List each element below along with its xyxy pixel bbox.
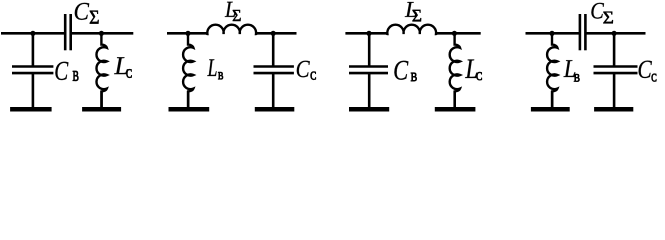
wire: L_C bottom lead (circuit 1) [100, 91, 103, 108]
node: circuit 4 right junction dot [612, 31, 617, 36]
ground bar under C_C (circuit 4) [594, 107, 633, 112]
label L_C (circuit 1) [114, 57, 132, 77]
inductor L_C (shunt, circuit 3) [450, 32, 460, 108]
node: circuit 2 left junction dot [185, 31, 190, 36]
wire: circuit 3 top rail, right segment [436, 32, 480, 35]
label L_B (circuit 4) [564, 60, 580, 81]
inductor L_Sigma (series, circuit 2) [206, 25, 257, 34]
capacitor C_B (shunt, circuit 3) with leads [368, 33, 371, 66]
label C_C (circuit 2) [297, 61, 316, 80]
inductor L_Sigma (series, circuit 3) [386, 25, 437, 34]
ground bar under L_B (circuit 2) [169, 107, 210, 112]
node: circuit 3 left junction dot [366, 31, 371, 36]
inductor L_C (shunt, circuit 1) [96, 32, 106, 108]
label L_B (circuit 2) [207, 59, 223, 79]
wire: circuit 2 top rail, right segment [256, 32, 296, 35]
inductor L_B (shunt, circuit 4) [547, 32, 557, 108]
node: circuit 2 right junction dot [271, 31, 276, 36]
ground bar under L_C (circuit 3) [435, 107, 476, 112]
wire: circuit 3 top rail, left segment [345, 32, 387, 35]
ground bar under C_C (circuit 2) [255, 107, 294, 112]
ground bar under C_B (circuit 1) [10, 107, 52, 112]
ground bar under C_B (circuit 3) [349, 107, 389, 112]
node: circuit 4 left junction dot [549, 31, 554, 36]
wire: L_C bottom lead (circuit 3) [453, 91, 456, 108]
label C_Sigma (circuit 4) [591, 3, 613, 24]
wire: L_B bottom lead (circuit 2) [187, 91, 190, 108]
node: circuit 1 left junction dot [30, 31, 35, 36]
capacitor C_C (shunt, circuit 2) with leads [272, 33, 275, 66]
label C_C (circuit 4) [639, 61, 657, 82]
wire: circuit 4 top rail, left segment [526, 32, 580, 35]
node: circuit 1 right junction dot [99, 31, 104, 36]
capacitor C_B (shunt, circuit 1) with leads [32, 33, 35, 66]
label C_Sigma (circuit 1) [75, 3, 99, 24]
label L_Sigma (circuit 2) [225, 2, 241, 21]
ground bar under L_C (circuit 1) [82, 107, 121, 112]
label C_B (circuit 1) [55, 62, 78, 81]
node: circuit 3 right junction dot [452, 31, 457, 36]
wire: circuit 1 top rail, right segment [71, 32, 134, 35]
wire: circuit 2 top rail, left segment [167, 32, 207, 35]
wire: L_B bottom lead (circuit 4) [551, 91, 554, 108]
capacitor C_Sigma plates (series, circuit 1) [64, 14, 67, 50]
inductor L_B (shunt, circuit 2) [183, 32, 193, 108]
label L_Sigma (circuit 3) [405, 2, 421, 21]
wire: circuit 4 top rail, right segment [585, 32, 645, 35]
label C_B (circuit 3) [394, 61, 416, 81]
wire: circuit 1 top rail, left segment [1, 32, 65, 35]
label L_C (circuit 3) [465, 59, 482, 80]
ground bar under L_B (circuit 4) [531, 107, 570, 112]
capacitor C_C (shunt, circuit 4) with leads [613, 33, 616, 66]
capacitor C_Sigma plates (series, circuit 4) [579, 14, 582, 50]
